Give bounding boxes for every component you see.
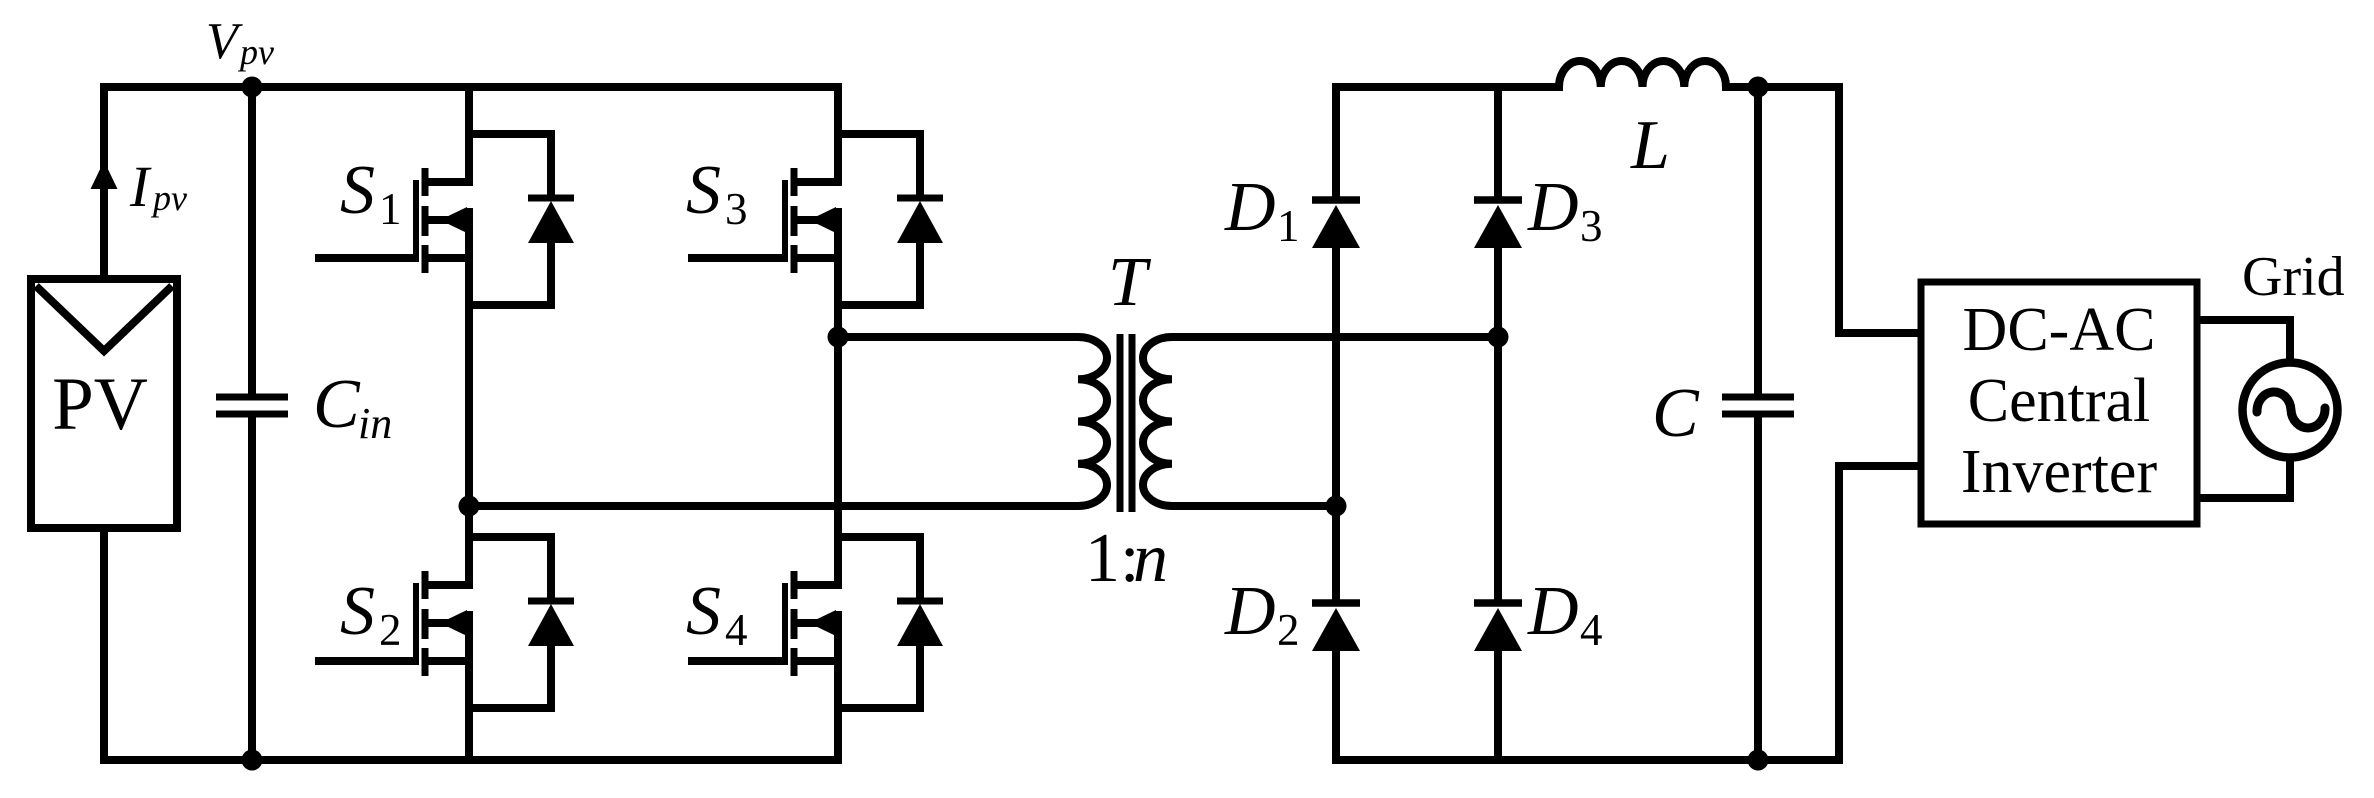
wire rectifier bottom rail with jog to inverter <box>1336 466 1921 760</box>
transistor S1 source connection <box>422 254 469 262</box>
current arrow Ipv on PV lead <box>91 161 118 189</box>
svg-text:pv: pv <box>237 32 274 72</box>
node Vpv junction dot <box>242 77 263 98</box>
label D4 <box>1527 573 1603 655</box>
svg-text:L: L <box>1630 107 1670 184</box>
antiparallel diode of S3 <box>838 134 943 305</box>
transistor S1 channel segments <box>422 168 429 273</box>
svg-text:D: D <box>1224 169 1276 246</box>
label Cin <box>313 366 392 448</box>
transistor S4 source connection <box>791 657 838 665</box>
wire inverter output top <box>2197 320 2290 364</box>
antiparallel diode of S2 <box>469 537 574 708</box>
transistor S2 source connection <box>422 657 469 665</box>
svg-text:DC-AC: DC-AC <box>1963 296 2156 364</box>
AC source Grid <box>2243 363 2338 458</box>
wire top rail left section with PV top lead <box>104 87 838 279</box>
node A junction dot S1-S2 midpoint <box>459 496 480 517</box>
svg-text:S: S <box>340 573 375 650</box>
transistor S1 drain connection <box>422 178 469 186</box>
label S2 <box>340 573 402 655</box>
transistor S4 body arrow <box>797 610 838 636</box>
diode D4 <box>1474 603 1522 651</box>
transistor S4 drain connection <box>791 581 838 589</box>
svg-text:pv: pv <box>150 178 187 218</box>
label T <box>1108 244 1152 321</box>
transformer T core <box>1120 334 1132 512</box>
svg-text:n: n <box>1133 520 1168 597</box>
transistor S3 gate bar <box>782 180 788 260</box>
wire S2 source to bottom rail <box>465 611 473 760</box>
wire S1 drain from top rail <box>465 87 473 186</box>
svg-text:C: C <box>313 366 361 443</box>
svg-text:2: 2 <box>1277 605 1300 655</box>
wire S1-S2 leg vertical <box>465 208 473 589</box>
svg-text:Grid: Grid <box>2242 246 2345 308</box>
wire bottom rail left section with PV bottom lead <box>104 528 838 760</box>
PV source box <box>31 279 177 528</box>
wire D3-D4 leg vertical <box>1494 246 1502 604</box>
transistor S2 gate lead <box>315 657 419 665</box>
PV chevron <box>36 286 172 351</box>
block U1 DC-AC central inverter <box>1921 282 2197 524</box>
svg-text:4: 4 <box>725 605 748 655</box>
wire inverter output bottom <box>2197 456 2290 498</box>
transistor S2 drain connection <box>422 581 469 589</box>
transformer T primary winding <box>1078 337 1107 506</box>
label C <box>1652 375 1700 452</box>
wire D3 cathode to top rail <box>1494 83 1502 200</box>
svg-text:in: in <box>358 399 392 448</box>
transistor S2 channel segments <box>422 571 429 676</box>
svg-text:1: 1 <box>1277 201 1300 251</box>
diode D2 <box>1312 603 1360 651</box>
svg-text:S: S <box>686 573 721 650</box>
transistor S2 body arrow <box>428 610 469 636</box>
node Cin bottom junction dot <box>242 750 263 771</box>
wire transformer primary bottom lead <box>469 502 1078 510</box>
antiparallel diode of S1 <box>469 134 574 305</box>
transistor S3 gate lead <box>688 254 788 262</box>
svg-text:S: S <box>340 152 375 229</box>
wire D1-D2 leg vertical <box>1332 246 1340 604</box>
node inductor output junction dot <box>1748 77 1769 98</box>
label DC-AC Central Inverter <box>1961 296 2158 506</box>
svg-text:D: D <box>1527 573 1579 650</box>
transistor S3 drain connection <box>791 178 838 186</box>
node secondary-bottom junction dot on D1-D2 leg <box>1326 496 1347 517</box>
svg-text:1: 1 <box>379 184 402 234</box>
transformer T secondary winding <box>1143 337 1172 506</box>
label PV <box>52 363 148 446</box>
wire D4 anode to bottom rail <box>1494 649 1502 760</box>
svg-text:3: 3 <box>1580 201 1603 251</box>
label S1 <box>340 152 402 234</box>
svg-text:3: 3 <box>725 184 748 234</box>
wire S3-S4 leg vertical <box>834 208 842 589</box>
label S4 <box>686 573 748 655</box>
svg-text:1:: 1: <box>1085 520 1139 597</box>
transistor S1 body arrow <box>428 207 469 233</box>
svg-text:D: D <box>1224 573 1276 650</box>
svg-text:4: 4 <box>1580 605 1603 655</box>
svg-text:Central: Central <box>1968 367 2151 435</box>
label S3 <box>686 152 748 234</box>
wire S4 source to bottom rail <box>834 611 842 764</box>
diode D3 <box>1474 200 1522 248</box>
svg-text:D: D <box>1527 169 1579 246</box>
transistor S4 channel segments <box>791 571 798 676</box>
wire rectifier top rail with inductor and jog to inverter <box>1336 61 1921 333</box>
transistor S4 gate bar <box>782 583 788 663</box>
label Grid <box>2242 246 2345 308</box>
svg-text:PV: PV <box>52 363 148 446</box>
svg-text:V: V <box>206 13 243 70</box>
node B junction dot S3-S4 midpoint <box>828 327 849 348</box>
transistor S4 gate lead <box>688 657 788 665</box>
svg-text:S: S <box>686 152 721 229</box>
diode D1 <box>1312 200 1360 248</box>
label 1:n turns ratio <box>1085 520 1168 597</box>
wire transformer secondary bottom lead <box>1172 502 1336 510</box>
wire S3 drain from top rail <box>834 83 842 186</box>
wire D2 anode to bottom rail <box>1332 649 1340 760</box>
label L inductor <box>1630 107 1670 184</box>
transistor S1 gate lead <box>315 254 419 262</box>
transistor S3 body arrow <box>797 207 838 233</box>
node C bottom junction dot <box>1748 750 1769 771</box>
svg-text:T: T <box>1108 244 1152 321</box>
wire transformer primary top lead <box>838 333 1078 341</box>
svg-text:C: C <box>1652 375 1700 452</box>
label D3 <box>1527 169 1603 251</box>
capacitor C <box>1722 87 1794 760</box>
label Ipv <box>129 154 187 219</box>
antiparallel diode of S4 <box>838 537 943 708</box>
svg-text:Inverter: Inverter <box>1961 438 2158 506</box>
svg-text:I: I <box>129 154 152 219</box>
transistor S3 channel segments <box>791 168 798 273</box>
wire transformer secondary top lead <box>1172 333 1498 341</box>
label Vpv <box>206 13 274 72</box>
svg-text:2: 2 <box>379 605 402 655</box>
label D1 <box>1224 169 1300 251</box>
transistor S3 source connection <box>791 254 838 262</box>
transistor S2 gate bar <box>413 583 419 663</box>
transistor S1 gate bar <box>413 180 419 260</box>
label D2 <box>1224 573 1300 655</box>
capacitor Cin <box>216 87 288 760</box>
node secondary-top junction dot on D3-D4 leg <box>1488 327 1509 348</box>
